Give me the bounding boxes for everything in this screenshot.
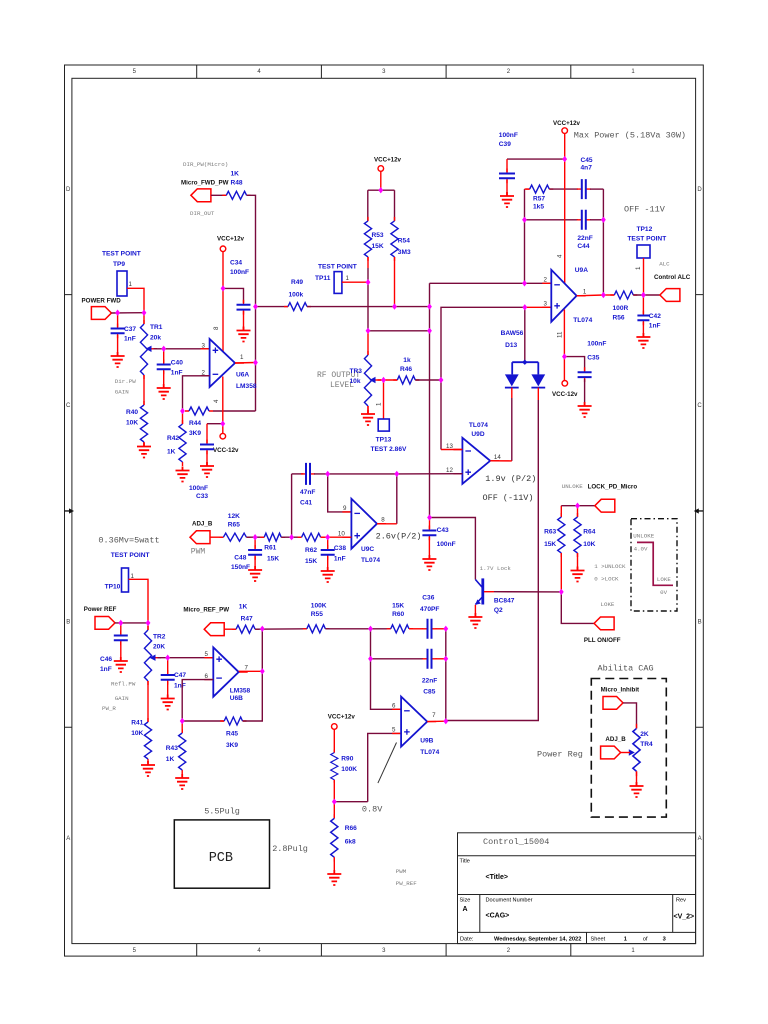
wire U9B pin6 vertical	[371, 629, 402, 710]
junction	[146, 620, 151, 626]
junction	[443, 656, 448, 662]
wire C36 to output node	[436, 628, 446, 630]
svg-text:10K: 10K	[126, 420, 138, 427]
resistor R57 1k5	[525, 185, 554, 210]
resistor R44 3K9	[185, 407, 213, 437]
ground under C37	[111, 335, 125, 367]
note PWM PW_REF	[396, 868, 417, 887]
svg-text:Document Number: Document Number	[486, 898, 533, 904]
note Dir.PW GAIN	[115, 378, 136, 396]
svg-text:DIR_OUT: DIR_OUT	[190, 210, 215, 217]
svg-text:of: of	[643, 937, 648, 943]
svg-text:0V: 0V	[660, 589, 667, 596]
potentiometer TR3 10k	[350, 331, 382, 410]
svg-text:1K: 1K	[231, 171, 240, 178]
note Refl.PW GAIN PW_R	[102, 681, 136, 713]
wire R90 to R66 node	[333, 780, 335, 818]
svg-text:U9C: U9C	[361, 546, 374, 553]
zone letters right	[697, 187, 702, 842]
note Power Reg	[537, 750, 583, 760]
resistor R55 100K	[303, 603, 330, 633]
wire left diode to U9D output	[511, 388, 513, 461]
svg-text:TEST POINT: TEST POINT	[111, 552, 150, 559]
resistor R45 3K9	[182, 717, 246, 749]
junction	[562, 353, 567, 359]
svg-text:10: 10	[338, 531, 345, 538]
svg-text:10K: 10K	[131, 730, 143, 737]
ground under R40	[137, 443, 151, 458]
junction	[115, 310, 120, 316]
ground under R66	[327, 857, 341, 885]
power VCC+12v (U9A pin4)	[553, 120, 581, 285]
svg-text:TP12: TP12	[637, 226, 653, 233]
svg-text:TEST POINT: TEST POINT	[102, 251, 141, 258]
wire R45 to U6B output	[243, 629, 263, 721]
svg-text:VCC+12v: VCC+12v	[217, 236, 245, 243]
U9D output wire	[490, 460, 512, 462]
wire C41 left leg	[291, 474, 293, 537]
svg-text:1: 1	[583, 289, 587, 296]
svg-text:R60: R60	[392, 611, 404, 618]
svg-text:15K: 15K	[544, 541, 556, 548]
zone numbers top	[133, 69, 636, 75]
frame mid arrows	[65, 508, 704, 513]
capacitor C46 1nF	[100, 623, 128, 673]
svg-text:7: 7	[245, 665, 249, 672]
connector Micro_REF_PW	[183, 607, 229, 636]
ground under Q2 emitter	[468, 605, 482, 628]
note 1 UNLOCK 0 LOCK	[594, 563, 626, 583]
svg-text:R45: R45	[226, 731, 238, 738]
svg-text:470PF: 470PF	[420, 606, 439, 613]
connector ADJ_B (Power Reg)	[601, 736, 630, 759]
resistor R90 100K	[331, 750, 358, 783]
wire U6A pin2 feedback	[183, 376, 210, 411]
svg-text:A: A	[698, 836, 702, 842]
note 2.6v(P/2)	[376, 532, 422, 542]
PCB outline box	[174, 807, 308, 889]
wire R48 to U6A output node	[247, 195, 256, 411]
capacitor C45 4n7	[549, 157, 603, 199]
svg-text:PWM: PWM	[396, 868, 407, 875]
wire row to R53 foot	[368, 330, 430, 332]
capacitor C85 22nF	[422, 649, 437, 696]
svg-text:4: 4	[213, 399, 220, 403]
svg-text:2.6v(P/2): 2.6v(P/2)	[376, 532, 422, 542]
junction	[142, 310, 147, 316]
U6A pin4 to VCC-12v	[213, 377, 239, 455]
svg-text:TL074: TL074	[573, 317, 592, 324]
svg-text:TP11: TP11	[315, 275, 331, 282]
ground under C42	[636, 322, 650, 348]
junction	[118, 620, 123, 626]
svg-text:7: 7	[432, 712, 436, 719]
connector Micro_FWD_PW	[181, 161, 229, 217]
svg-text:U9B: U9B	[420, 738, 433, 745]
svg-text:Wednesday, September 14, 2022: Wednesday, September 14, 2022	[494, 937, 581, 943]
svg-text:<CAG>: <CAG>	[486, 913, 510, 920]
ground under C35	[578, 379, 592, 417]
title block text Control_15004	[483, 837, 549, 847]
junction	[641, 292, 646, 298]
wire to U9C pin9	[328, 474, 352, 512]
svg-text:Control_15004: Control_15004	[483, 837, 549, 847]
resistor R61 15K	[246, 533, 285, 562]
title block	[458, 833, 696, 944]
capacitor C41 47nF	[292, 463, 316, 507]
svg-text:GAIN: GAIN	[115, 389, 129, 396]
svg-text:100nF: 100nF	[437, 541, 456, 548]
svg-text:LOKE: LOKE	[601, 601, 615, 608]
resistor R46 1k	[393, 357, 419, 384]
connector Control ALC	[654, 261, 691, 302]
svg-text:9: 9	[343, 505, 347, 512]
svg-text:C41: C41	[300, 500, 312, 507]
svg-text:Power Reg: Power Reg	[537, 750, 583, 760]
U9A pin11 supply	[563, 310, 565, 357]
junction	[165, 655, 170, 661]
svg-text:UNLOKE: UNLOKE	[562, 483, 583, 490]
note Max Power	[574, 131, 686, 141]
junction	[366, 328, 371, 334]
svg-text:PW_REF: PW_REF	[396, 880, 417, 887]
test point TP11	[315, 264, 368, 294]
svg-text:OFF -11V: OFF -11V	[624, 205, 666, 215]
svg-text:1: 1	[635, 266, 642, 270]
svg-text:Title: Title	[460, 859, 470, 865]
dual diode BAW56 D13	[501, 330, 546, 388]
svg-text:R61: R61	[264, 545, 276, 552]
resistor R53 15K	[364, 217, 384, 261]
wire U9A pin2 row	[430, 282, 552, 284]
op-amp U9C TL074	[342, 499, 386, 564]
svg-text:13: 13	[446, 443, 453, 450]
wire to ALC connector	[633, 294, 660, 296]
svg-text:LOKE: LOKE	[657, 576, 671, 583]
power VCC-12v (U9A)	[552, 357, 578, 398]
svg-text:A: A	[463, 906, 468, 913]
wire C43 node to Q2 collector	[430, 518, 476, 580]
junction	[392, 303, 397, 309]
lock level legend box	[631, 519, 677, 611]
svg-text:R49: R49	[291, 279, 303, 286]
svg-text:Q2: Q2	[494, 607, 503, 614]
wire R53 down through TP11 node	[367, 257, 369, 331]
svg-text:5: 5	[392, 727, 396, 734]
svg-text:VCC-12v: VCC-12v	[213, 447, 239, 454]
op-amp U9A TL074	[542, 267, 592, 324]
svg-text:10k: 10k	[350, 378, 361, 385]
svg-text:R47: R47	[241, 616, 253, 623]
ground under C33	[189, 451, 214, 500]
svg-text:5.5Pulg: 5.5Pulg	[204, 807, 240, 817]
svg-text:PCB: PCB	[209, 851, 233, 866]
resistor R40 10K	[126, 375, 148, 446]
resistor R47 1K	[224, 604, 259, 634]
transistor Q2 BC847	[475, 578, 515, 614]
svg-text:TR2: TR2	[153, 634, 166, 641]
wire R63 foot	[560, 553, 562, 592]
note 1.9v (P/2) OFF (-11V)	[483, 474, 537, 503]
svg-text:100nF: 100nF	[499, 132, 518, 139]
op-amp U6B LM358	[204, 647, 250, 702]
svg-text:VCC+12v: VCC+12v	[553, 120, 581, 127]
svg-text:Refl.PW: Refl.PW	[111, 681, 136, 688]
svg-text:C85: C85	[423, 689, 435, 696]
connector PLL ON/OFF	[584, 601, 621, 644]
svg-text:8: 8	[213, 326, 220, 330]
svg-text:R56: R56	[613, 315, 625, 322]
wire R61-R62 node	[281, 536, 301, 538]
junction	[253, 303, 258, 309]
svg-text:C40: C40	[171, 360, 183, 367]
svg-text:TEST 2.86V: TEST 2.86V	[371, 446, 408, 453]
capacitor C39 100nF	[499, 132, 565, 183]
svg-text:R54: R54	[398, 238, 410, 245]
svg-text:B: B	[698, 620, 702, 626]
connector Micro_Inhibit	[601, 687, 640, 710]
wire R54 to R49 row	[394, 257, 396, 307]
wire R53/R54 rail	[368, 190, 395, 221]
svg-text:C47: C47	[174, 672, 186, 679]
junction	[325, 471, 330, 477]
svg-text:Rev: Rev	[676, 898, 686, 904]
U6B output pin7 wire	[239, 670, 263, 672]
wire U9D pin13 stub	[441, 449, 462, 451]
svg-text:Date:: Date:	[460, 937, 474, 943]
resistor R65 12K	[210, 513, 250, 541]
svg-text:150nF: 150nF	[231, 564, 250, 571]
svg-text:12: 12	[446, 467, 453, 474]
resistor R60 15K	[387, 603, 413, 633]
svg-text:3K9: 3K9	[226, 742, 238, 749]
potentiometer TR4 2K	[629, 724, 653, 776]
resistor R49 100k	[256, 279, 312, 311]
svg-text:OFF (-11V): OFF (-11V)	[483, 493, 534, 503]
capacitor C47 1nF	[161, 658, 187, 690]
junction	[443, 718, 448, 724]
svg-text:R48: R48	[231, 180, 243, 187]
capacitor C35 100nF	[564, 341, 606, 383]
svg-text:22nF: 22nF	[577, 235, 592, 242]
op-amp U6A LM358	[201, 339, 257, 390]
power VCC+12v (R90)	[328, 714, 356, 753]
ground under R42	[176, 467, 190, 482]
svg-text:Control ALC: Control ALC	[654, 274, 691, 281]
junction	[427, 328, 432, 334]
title block title row	[460, 859, 508, 882]
svg-text:LOCK_PD_Micro: LOCK_PD_Micro	[588, 484, 638, 491]
svg-text:C38: C38	[334, 545, 346, 552]
connector LOCK_PD_Micro	[562, 483, 638, 512]
svg-text:U6A: U6A	[236, 372, 249, 379]
U9B pin labels	[392, 703, 436, 734]
svg-text:4: 4	[557, 254, 564, 258]
svg-text:1: 1	[240, 354, 244, 361]
svg-text:15K: 15K	[392, 603, 404, 610]
svg-text:A: A	[66, 836, 70, 842]
svg-text:22nF: 22nF	[422, 678, 437, 685]
svg-text:D13: D13	[505, 342, 517, 349]
junction	[221, 285, 226, 291]
svg-text:1nF: 1nF	[100, 666, 112, 673]
svg-text:R46: R46	[400, 366, 412, 373]
svg-text:1nF: 1nF	[124, 336, 136, 343]
junction	[559, 589, 564, 595]
resistor R66 6k8	[331, 814, 357, 862]
svg-text:Power REF: Power REF	[84, 606, 117, 613]
wire right diode to U9B output	[446, 388, 539, 721]
junction	[332, 799, 337, 805]
capacitor C36 470PF	[409, 595, 439, 639]
junction	[381, 377, 386, 383]
svg-text:C43: C43	[437, 527, 449, 534]
svg-text:C34: C34	[230, 260, 242, 267]
junction	[601, 292, 606, 298]
wire Q2 base row	[494, 591, 561, 593]
ground under C43	[422, 537, 436, 570]
op-amp U9D TL074	[453, 422, 499, 484]
test point TP12	[627, 226, 666, 295]
svg-text:10K: 10K	[583, 541, 595, 548]
wire C41 row	[314, 473, 397, 475]
svg-text:D: D	[697, 187, 702, 193]
svg-text:2: 2	[544, 277, 548, 284]
svg-text:1nF: 1nF	[649, 323, 661, 330]
resistor R63 15K	[544, 506, 565, 557]
note 1.7V Lock	[480, 565, 512, 572]
svg-text:VCC+12v: VCC+12v	[328, 714, 356, 721]
node V1 vertical (U9A pin2 net)	[429, 283, 431, 517]
svg-text:47nF: 47nF	[300, 489, 315, 496]
ground under C39	[500, 180, 514, 207]
capacitor C43 100nF	[422, 518, 455, 549]
svg-text:11: 11	[557, 331, 564, 338]
zone letters left	[66, 187, 71, 842]
svg-text:6: 6	[392, 703, 396, 710]
resistor R42 1K	[167, 411, 186, 466]
junction	[260, 668, 265, 674]
wire to PLL connector	[561, 592, 594, 624]
test point TP13	[371, 380, 408, 453]
resistor R41 10K	[131, 681, 151, 763]
svg-text:R63: R63	[544, 529, 556, 536]
svg-text:15K: 15K	[305, 558, 317, 565]
svg-text:TP13: TP13	[376, 437, 392, 444]
svg-text:POWER FWD: POWER FWD	[82, 298, 122, 305]
junction	[522, 217, 527, 223]
svg-text:1.9v (P/2): 1.9v (P/2)	[485, 474, 536, 484]
junction	[575, 503, 580, 509]
junction	[366, 279, 371, 285]
svg-text:1k5: 1k5	[533, 204, 544, 211]
title block date row	[460, 937, 666, 943]
svg-text:6k8: 6k8	[345, 839, 356, 846]
capacitor C33 100nF	[200, 424, 223, 455]
connector POWER FWD	[82, 298, 122, 320]
svg-text:4.0V: 4.0V	[634, 546, 648, 553]
wire R44 to output	[213, 410, 256, 412]
svg-text:1nF: 1nF	[171, 370, 183, 377]
node V2 vertical (U9A pin3 / U9D pin13)	[441, 307, 525, 449]
svg-text:100K: 100K	[341, 766, 357, 773]
junction	[522, 280, 527, 286]
capacitor C48 150nF	[231, 537, 262, 571]
svg-text:3: 3	[202, 343, 206, 350]
connector Power REF	[84, 606, 117, 629]
svg-text:U9A: U9A	[575, 267, 588, 274]
note OFF -11V	[624, 205, 666, 215]
svg-text:0.36Mv=5watt: 0.36Mv=5watt	[98, 536, 159, 546]
svg-text:3: 3	[544, 301, 548, 308]
svg-text:C37: C37	[124, 326, 136, 333]
svg-text:Dir.PW: Dir.PW	[115, 378, 136, 385]
svg-text:Micro_Inhibit: Micro_Inhibit	[601, 687, 640, 694]
capacitor C40 1nF	[157, 349, 184, 377]
junction	[427, 303, 432, 309]
svg-text:1.7V Lock: 1.7V Lock	[480, 565, 512, 572]
svg-text:C45: C45	[581, 157, 593, 164]
op-amp U9B TL074	[392, 697, 439, 756]
U9C output wire	[377, 523, 397, 525]
svg-text:UNLOKE: UNLOKE	[633, 533, 654, 540]
svg-text:<Title>: <Title>	[486, 874, 508, 881]
resistor R62 15K	[298, 533, 325, 565]
junction	[180, 408, 185, 414]
svg-text:C: C	[697, 403, 702, 409]
svg-text:R53: R53	[372, 232, 384, 239]
ground under C48	[248, 557, 262, 582]
junction	[161, 346, 166, 352]
svg-text:TL074: TL074	[420, 749, 439, 756]
junction	[260, 626, 265, 632]
svg-text:ADJ_B: ADJ_B	[605, 736, 626, 743]
svg-text:1: 1	[624, 937, 627, 943]
svg-text:R40: R40	[126, 409, 138, 416]
U9C pin labels	[338, 505, 385, 538]
svg-text:U6B: U6B	[230, 695, 243, 702]
svg-text:1nF: 1nF	[334, 556, 346, 563]
svg-text:2.8Pulg: 2.8Pulg	[272, 844, 308, 854]
sheet border frame	[65, 65, 704, 956]
svg-text:1: 1	[376, 402, 383, 406]
junction	[289, 534, 294, 540]
wire feedback right vertical	[602, 189, 604, 295]
junction	[439, 377, 444, 383]
wire R47 to R55	[255, 628, 307, 630]
svg-text:0 >LOCK: 0 >LOCK	[594, 576, 619, 583]
svg-text:1 >UNLOCK: 1 >UNLOCK	[594, 563, 626, 570]
svg-text:PWM: PWM	[191, 548, 206, 557]
wire R49 row to pin2 node	[307, 306, 430, 308]
svg-text:12K: 12K	[228, 513, 240, 520]
svg-text:BAW56: BAW56	[501, 330, 524, 337]
U6B pin labels	[205, 651, 249, 680]
svg-text:GAIN: GAIN	[115, 695, 129, 702]
svg-text:1k: 1k	[403, 357, 411, 364]
svg-text:R66: R66	[345, 825, 357, 832]
resistor R56 100R	[603, 291, 637, 322]
svg-text:PW_R: PW_R	[102, 705, 116, 712]
svg-text:R62: R62	[305, 547, 317, 554]
svg-text:C48: C48	[234, 555, 246, 562]
U9A pin labels	[544, 254, 587, 338]
junction	[378, 187, 383, 193]
wire TR1 wiper to U6A pin3	[154, 348, 210, 350]
svg-text:U9D: U9D	[471, 431, 484, 438]
svg-text:R57: R57	[533, 196, 545, 203]
svg-text:R43: R43	[166, 745, 178, 752]
